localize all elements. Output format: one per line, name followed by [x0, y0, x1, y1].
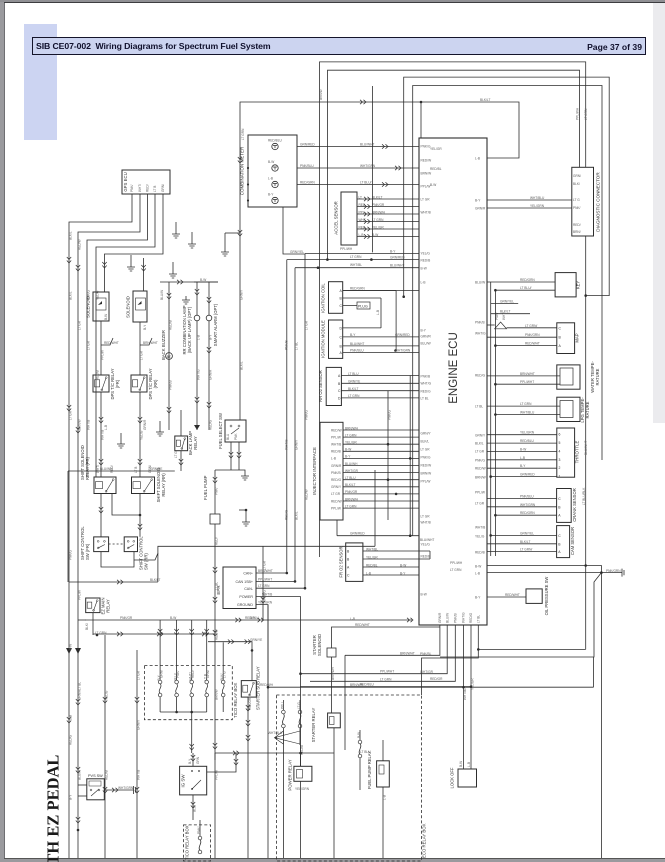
- wire rr o2 y375.5: [341, 375, 419, 377]
- svg-text:LT GR: LT GR: [78, 320, 82, 330]
- ground pvs: [130, 786, 136, 794]
- tico relay box 2 dashed: [184, 825, 211, 861]
- svg-text:PVS SW: PVS SW: [88, 774, 103, 778]
- wire gnd stub d: [172, 262, 174, 270]
- svg-text:GRN/YEL: GRN/YEL: [290, 250, 304, 254]
- svg-text:LT G: LT G: [297, 702, 301, 709]
- wire oil press: [487, 596, 526, 598]
- svg-text:6: 6: [559, 433, 561, 437]
- wire cam3 trim: [305, 253, 419, 255]
- svg-text:LT BLU/: LT BLU/: [520, 286, 532, 290]
- svg-text:LT G: LT G: [174, 451, 178, 458]
- wire lpg temp 1: [487, 405, 560, 407]
- diode left bus 2: [75, 648, 81, 654]
- wire map B: [487, 336, 557, 338]
- svg-text:PNK/: PNK/: [573, 206, 581, 210]
- wire fp fuse out: [359, 758, 361, 790]
- svg-text:B-W: B-W: [372, 233, 378, 237]
- wire bottom link 753: [215, 752, 334, 754]
- wire fuse top x191.7: [191, 671, 193, 680]
- fuse x176.6: [175, 680, 179, 684]
- svg-text:CAN 1SB+: CAN 1SB+: [236, 580, 253, 584]
- wire epr gnd seg: [267, 605, 269, 688]
- wire loop R2: [328, 70, 580, 259]
- shift solenoid relay RR box: [132, 477, 155, 494]
- svg-text:LT GR: LT GR: [421, 197, 431, 201]
- fuse x206.7: [205, 680, 209, 684]
- svg-text:BRN/W: BRN/W: [421, 171, 432, 175]
- wire fuse top x206.7: [206, 671, 208, 680]
- wire power relay down: [300, 781, 302, 858]
- svg-text:RED/W: RED/W: [421, 158, 432, 162]
- wire power relay feed: [300, 745, 302, 766]
- wire rr o2 y390.7: [341, 390, 419, 392]
- wire map C: [507, 327, 557, 329]
- svg-text:L-B: L-B: [350, 617, 355, 621]
- svg-text:BLU/WH: BLU/WH: [100, 467, 113, 471]
- svg-text:GRN/RED: GRN/RED: [395, 333, 410, 337]
- svg-text:BLK/LT: BLK/LT: [372, 196, 382, 200]
- wire injector row 2: [343, 436, 419, 438]
- svg-text:RED/B: RED/B: [475, 550, 485, 554]
- svg-text:RED/: RED/: [146, 184, 150, 192]
- svg-text:BLU/WHT: BLU/WHT: [350, 342, 364, 346]
- svg-text:SMART ALARM (OPT): SMART ALARM (OPT): [213, 303, 218, 346]
- wire back lamp down: [180, 451, 182, 471]
- svg-text:BLU/W: BLU/W: [78, 770, 82, 780]
- svg-text:WHT/GRN: WHT/GRN: [395, 349, 411, 353]
- wire coil out x300: [299, 728, 301, 745]
- wire fpump down: [477, 625, 479, 649]
- svg-text:PNK/B: PNK/B: [454, 613, 458, 623]
- wire gnd branch 657: [440, 573, 601, 657]
- wire back lamp up: [180, 410, 182, 436]
- svg-text:BLU/WHT: BLU/WHT: [420, 538, 434, 542]
- svg-text:SW (FR): SW (FR): [85, 543, 90, 560]
- svg-text:BRN/W: BRN/W: [421, 471, 432, 475]
- ground symbol right: [618, 569, 624, 577]
- svg-text:D: D: [338, 396, 341, 400]
- svg-text:RED/W: RED/W: [215, 629, 219, 640]
- svg-text:B-Y: B-Y: [390, 250, 396, 254]
- svg-text:4: 4: [559, 449, 561, 453]
- wire tico out: [191, 712, 193, 740]
- wire injector row 10: [343, 493, 419, 495]
- svg-text:WHT/BLU: WHT/BLU: [530, 196, 545, 200]
- svg-text:L-B: L-B: [383, 795, 387, 800]
- svg-text:LT GRN: LT GRN: [350, 255, 362, 259]
- svg-text:BLK/: BLK/: [573, 182, 580, 186]
- svg-text:WHT/G: WHT/G: [285, 439, 289, 450]
- svg-text:PNK/GRN: PNK/GRN: [525, 333, 540, 337]
- svg-text:COMBINATION METER: COMBINATION METER: [240, 146, 245, 195]
- wire shift sw stub: [134, 553, 158, 560]
- svg-text:B-W: B-W: [475, 564, 481, 568]
- wire CAN+: [287, 259, 419, 261]
- svg-text:BLK/L: BLK/L: [69, 231, 73, 240]
- svg-text:GRN/YEL: GRN/YEL: [520, 531, 534, 535]
- svg-text:GRN/: GRN/: [206, 670, 210, 678]
- starter relay box: [328, 713, 341, 728]
- fuel pump box: [210, 514, 220, 524]
- svg-text:BLK/LT: BLK/LT: [520, 540, 530, 544]
- wire gnd stub f: [159, 421, 161, 428]
- svg-text:RED/B: RED/B: [421, 554, 431, 558]
- svg-text:PNK/G: PNK/G: [388, 410, 392, 420]
- wire gnd stub a: [175, 222, 177, 230]
- svg-text:BLU/WHT: BLU/WHT: [390, 264, 404, 268]
- wire epr can-: [256, 587, 305, 589]
- svg-text:B: B: [558, 542, 561, 546]
- svg-text:LT GRN: LT GRN: [345, 433, 357, 437]
- svg-text:LT GR: LT GR: [475, 501, 485, 505]
- svg-text:LT GRN: LT GRN: [450, 568, 462, 572]
- svg-text:YEL/GRN: YEL/GRN: [295, 787, 310, 791]
- wire fuse bot x176.6: [176, 697, 178, 712]
- wire injector row 1: [343, 429, 419, 431]
- wire meter oil press: [297, 167, 419, 169]
- wire injector row 12: [343, 507, 419, 509]
- wire gps pin2 to left bus: [78, 194, 140, 858]
- svg-text:CRANK SENSOR: CRANK SENSOR: [572, 488, 577, 522]
- svg-text:STARTER SUB RELAY: STARTER SUB RELAY: [256, 666, 261, 710]
- fuse x160.1: [158, 680, 162, 684]
- dps t/c relay RR box: [131, 375, 147, 392]
- wire vbat2: [301, 625, 448, 674]
- svg-text:BRN/WHT: BRN/WHT: [400, 651, 415, 655]
- svg-text:GRN/R: GRN/R: [331, 464, 342, 468]
- svg-text:BLU/W: BLU/W: [445, 613, 449, 623]
- wire sv ext1: [487, 324, 495, 326]
- svg-text:CAN+: CAN+: [243, 572, 253, 576]
- svg-text:SOLENOID: SOLENOID: [126, 296, 131, 318]
- wire meter mil: [297, 184, 419, 186]
- svg-text:YEL/G: YEL/G: [475, 534, 485, 538]
- svg-text:B-W: B-W: [459, 761, 463, 767]
- svg-text:WHT/BLU: WHT/BLU: [268, 731, 283, 735]
- diode left bus 1: [66, 648, 72, 654]
- svg-text:RED/G: RED/G: [285, 509, 289, 520]
- svg-text:BLU/WH: BLU/WH: [345, 462, 358, 466]
- fr o2 sensor box: [346, 543, 363, 582]
- fuel pump relay box: [377, 761, 390, 787]
- accel sensor box: [341, 192, 357, 245]
- svg-text:WHT/B: WHT/B: [137, 770, 141, 780]
- svg-text:RED/BLU: RED/BLU: [520, 439, 535, 443]
- wire rr o2 y397.9: [341, 397, 419, 399]
- svg-text:WHT/B: WHT/B: [101, 430, 105, 440]
- svg-text:BLK/L: BLK/L: [421, 439, 430, 443]
- wire ez main left: [78, 619, 86, 621]
- svg-text:STARTER RELAY: STARTER RELAY: [311, 708, 316, 743]
- svg-text:PLUG: PLUG: [358, 305, 368, 309]
- wire injector row 8: [343, 479, 419, 481]
- shift control sw FR box: [94, 537, 109, 552]
- svg-text:PPL/WH: PPL/WH: [450, 561, 463, 565]
- wire key row2: [495, 289, 555, 291]
- wire key row1: [487, 281, 555, 283]
- svg-text:GRN/YE: GRN/YE: [250, 638, 262, 642]
- svg-text:RELAY: RELAY: [193, 436, 198, 450]
- wire tico feed x176.6: [176, 620, 178, 671]
- svg-text:B: B: [559, 336, 562, 340]
- wire ign mod A: [343, 352, 419, 354]
- wire cam C: [491, 534, 557, 536]
- svg-text:BLU/W: BLU/W: [475, 280, 485, 284]
- svg-text:GRN/Y: GRN/Y: [475, 433, 486, 437]
- dps t/c relay FR box: [93, 375, 109, 392]
- svg-text:RED/BLU: RED/BLU: [268, 139, 283, 143]
- wire fr o2 y575: [363, 574, 419, 576]
- svg-text:RED/B: RED/B: [96, 370, 100, 380]
- solenoid 1 box: [93, 292, 109, 321]
- wire fp relay down: [382, 787, 384, 858]
- svg-text:L-B: L-B: [421, 280, 426, 284]
- svg-text:PNK/: PNK/: [130, 184, 134, 192]
- svg-text:WHT/B: WHT/B: [421, 520, 431, 524]
- wire fuse top x160.1: [159, 671, 161, 680]
- svg-text:PNK/: PNK/: [197, 826, 201, 834]
- svg-text:B: B: [340, 297, 343, 301]
- svg-text:BRN/: BRN/: [573, 230, 581, 234]
- wire gnd bus 687: [268, 686, 594, 688]
- svg-text:WHT/B: WHT/B: [421, 210, 431, 214]
- wire right bus up: [374, 470, 376, 546]
- wire fuse top x176.6: [176, 671, 178, 680]
- svg-text:GRN/R: GRN/R: [438, 612, 442, 623]
- tico relay box dashed: [144, 666, 232, 720]
- svg-text:WHT/G: WHT/G: [197, 369, 201, 380]
- svg-text:LT GRN: LT GRN: [241, 128, 245, 140]
- svg-text:(FR): (FR): [115, 379, 120, 388]
- wire pnk yellow: [337, 535, 419, 537]
- wire gps pin4: [96, 194, 155, 477]
- svg-text:YEL/GRN: YEL/GRN: [530, 204, 545, 208]
- svg-text:B: B: [558, 505, 561, 509]
- fuse x191.7: [190, 680, 194, 684]
- svg-text:GRN/R: GRN/R: [475, 206, 486, 210]
- svg-text:GPS ECU: GPS ECU: [123, 172, 128, 191]
- wire ig sw feed: [192, 753, 194, 766]
- svg-text:YEL/G: YEL/G: [96, 290, 100, 300]
- wire smart alarm up: [208, 282, 210, 315]
- svg-text:GRN/: GRN/: [161, 184, 165, 192]
- svg-text:WHT/G: WHT/G: [462, 612, 466, 623]
- svg-text:L-B: L-B: [197, 335, 201, 340]
- water temp box: [557, 365, 580, 389]
- svg-text:LT GR: LT GR: [69, 410, 73, 420]
- svg-text:BLU/W: BLU/W: [421, 341, 431, 345]
- svg-text:RELAY: RELAY: [106, 599, 111, 613]
- svg-text:BRN/WH: BRN/WH: [372, 211, 386, 215]
- svg-text:BLK/LT: BLK/LT: [150, 578, 160, 582]
- svg-text:PNK/G: PNK/G: [263, 590, 267, 600]
- svg-text:5: 5: [559, 441, 561, 445]
- svg-text:RED/WHT: RED/WHT: [355, 623, 370, 627]
- svg-text:B-Y: B-Y: [250, 616, 256, 620]
- wire throttle y459.8: [487, 459, 557, 461]
- svg-text:SOLENOID: SOLENOID: [86, 296, 91, 318]
- svg-text:RED/GR: RED/GR: [430, 677, 443, 681]
- svg-text:RED/: RED/: [573, 223, 581, 227]
- svg-text:B-W: B-W: [200, 278, 206, 282]
- svg-text:B-W: B-W: [345, 448, 351, 452]
- svg-text:WHT/G: WHT/G: [421, 381, 432, 385]
- svg-text:YEL/G: YEL/G: [105, 690, 109, 700]
- svg-text:WHT/GRN: WHT/GRN: [360, 164, 376, 168]
- wire fp gnd link: [239, 509, 246, 511]
- svg-text:RED/GRN: RED/GRN: [300, 181, 315, 185]
- wire seat sw stub 2: [140, 338, 152, 345]
- svg-text:PPL/WHT: PPL/WHT: [520, 380, 534, 384]
- svg-text:RED/B: RED/B: [169, 320, 173, 330]
- svg-text:B-Y: B-Y: [188, 758, 192, 764]
- svg-text:MAP: MAP: [575, 333, 580, 342]
- wire injector row 6: [343, 465, 419, 467]
- svg-text:(RR): (RR): [153, 379, 158, 388]
- svg-text:LT GR: LT GR: [475, 449, 485, 453]
- svg-text:B: B: [340, 344, 343, 348]
- svg-text:C: C: [559, 326, 562, 330]
- svg-text:LT BL: LT BL: [215, 582, 219, 590]
- svg-text:RED/: RED/: [215, 537, 219, 545]
- svg-text:BLU/: BLU/: [193, 805, 197, 812]
- svg-text:GRN/R: GRN/R: [143, 419, 147, 430]
- wire pvs feed left: [78, 784, 87, 786]
- svg-text:PNK/: PNK/: [176, 670, 180, 678]
- svg-text:IG SW: IG SW: [181, 774, 186, 788]
- wire ez out: [93, 633, 215, 635]
- svg-text:BLK/LT: BLK/LT: [348, 387, 358, 391]
- svg-text:PPL: PPL: [359, 211, 365, 215]
- wire ss FR down: [100, 494, 102, 537]
- wire loop R4: [413, 86, 602, 536]
- svg-text:B-Y: B-Y: [400, 571, 406, 575]
- coil fuse x283.4: [282, 710, 286, 714]
- wire back buzzer line: [168, 282, 170, 430]
- svg-text:PPL/W: PPL/W: [421, 184, 431, 188]
- wire bus B-Y: [85, 619, 412, 621]
- svg-text:LT GR: LT GR: [137, 670, 141, 680]
- svg-text:RED/BL: RED/BL: [366, 563, 378, 567]
- meter lamp 4: [272, 197, 278, 203]
- svg-text:D: D: [340, 326, 343, 330]
- svg-text:LT GRN: LT GRN: [95, 631, 107, 635]
- wire map A: [495, 345, 556, 347]
- svg-text:B-W: B-W: [268, 160, 274, 164]
- svg-text:ACCEL SENSOR: ACCEL SENSOR: [334, 201, 339, 235]
- svg-text:YEL/GRN: YEL/GRN: [258, 601, 273, 605]
- svg-text:IGNITION COIL: IGNITION COIL: [321, 283, 326, 313]
- svg-text:BLU: BLU: [226, 433, 230, 440]
- wire meter gnd link: [225, 232, 240, 234]
- wire gps pin1 to left bus: [69, 194, 132, 858]
- svg-text:B-W: B-W: [357, 732, 361, 738]
- svg-text:LT GRN: LT GRN: [520, 402, 532, 406]
- svg-text:TICO RELAY BOX: TICO RELAY BOX: [185, 825, 190, 860]
- svg-text:LT BLU: LT BLU: [345, 476, 356, 480]
- svg-text:PNK/G: PNK/G: [421, 455, 431, 459]
- svg-text:L-B: L-B: [366, 571, 371, 575]
- wire fuse bot x191.7: [191, 697, 193, 712]
- svg-text:PPL/W: PPL/W: [101, 350, 105, 360]
- svg-text:WHT/GRN: WHT/GRN: [520, 503, 536, 507]
- smart alarm circle: [206, 315, 212, 321]
- svg-text:RED/WHT: RED/WHT: [104, 341, 119, 345]
- wire meter bottom to EPR CAN: [283, 207, 305, 588]
- svg-text:YEL/GR: YEL/GR: [366, 555, 378, 559]
- svg-text:GRN/: GRN/: [573, 174, 581, 178]
- svg-text:C: C: [340, 304, 343, 308]
- svg-text:PNK/G: PNK/G: [305, 410, 309, 420]
- svg-text:WHT/BL: WHT/BL: [350, 263, 362, 267]
- svg-text:GRN/R: GRN/R: [78, 689, 82, 700]
- wire ssr down2: [247, 697, 249, 858]
- svg-text:BLK/: BLK/: [85, 623, 89, 630]
- wire dps RR down: [139, 392, 141, 477]
- svg-text:A: A: [340, 289, 343, 293]
- wire left long x105: [104, 635, 106, 858]
- svg-text:FR O2 SENSOR: FR O2 SENSOR: [339, 546, 344, 577]
- svg-text:PPL/W: PPL/W: [331, 506, 341, 510]
- wire ss RR down: [139, 494, 141, 537]
- wire loop R1: [320, 62, 586, 557]
- oil pressure sw box: [526, 589, 542, 604]
- svg-text:PNK/: PNK/: [215, 487, 219, 495]
- fuel select sw box: [225, 420, 246, 442]
- svg-text:RED/W: RED/W: [475, 466, 486, 470]
- svg-text:L-B: L-B: [475, 571, 480, 575]
- diagnostic connector box: [572, 167, 594, 236]
- svg-text:B-W: B-W: [421, 266, 427, 270]
- wire pnk yellow bus: [300, 686, 471, 688]
- svg-text:PPL/WHT: PPL/WHT: [258, 577, 272, 581]
- svg-text:RED/G: RED/G: [469, 612, 473, 623]
- svg-text:PPL/: PPL/: [280, 702, 284, 709]
- svg-text:GRN/RED: GRN/RED: [520, 473, 535, 477]
- svg-text:WHT/G: WHT/G: [475, 331, 486, 335]
- svg-text:GRN/YE: GRN/YE: [348, 380, 360, 384]
- svg-text:KEY: KEY: [576, 281, 581, 290]
- shift control sw RR box: [124, 537, 137, 552]
- svg-text:RED/WHT: RED/WHT: [505, 593, 520, 597]
- wire coil A to ecu: [343, 290, 419, 292]
- svg-text:B-W: B-W: [69, 644, 73, 650]
- svg-text:BLK/L: BLK/L: [69, 291, 73, 300]
- svg-text:RED/G: RED/G: [331, 478, 342, 482]
- svg-text:RELAY (RR): RELAY (RR): [161, 473, 166, 497]
- svg-text:POWER RELAY: POWER RELAY: [288, 759, 293, 790]
- svg-text:LT BLU: LT BLU: [360, 750, 371, 754]
- svg-text:DIAGNOSTIC CONNECTOR: DIAGNOSTIC CONNECTOR: [596, 172, 601, 232]
- wire fuse bot x206.7: [206, 697, 208, 712]
- wire ign mod D: [343, 327, 381, 329]
- combination meter box: [248, 135, 297, 207]
- svg-text:RATURE: RATURE: [585, 401, 590, 418]
- wire left link down: [67, 471, 69, 582]
- svg-text:WHT/GR: WHT/GR: [345, 469, 359, 473]
- lock off box: [458, 769, 477, 787]
- wire throttle y443.1: [487, 442, 557, 444]
- svg-text:YEL/GR: YEL/GR: [372, 226, 384, 230]
- svg-text:ENGINE ECU: ENGINE ECU: [448, 332, 460, 404]
- svg-text:RED/WHT: RED/WHT: [525, 342, 540, 346]
- svg-text:RELAY (FR): RELAY (FR): [85, 457, 90, 480]
- svg-text:THROTTLE: THROTTLE: [575, 441, 580, 464]
- svg-text:RATURE: RATURE: [595, 368, 600, 385]
- wire left long x137: [136, 650, 138, 858]
- svg-text:LT GRN: LT GRN: [348, 394, 360, 398]
